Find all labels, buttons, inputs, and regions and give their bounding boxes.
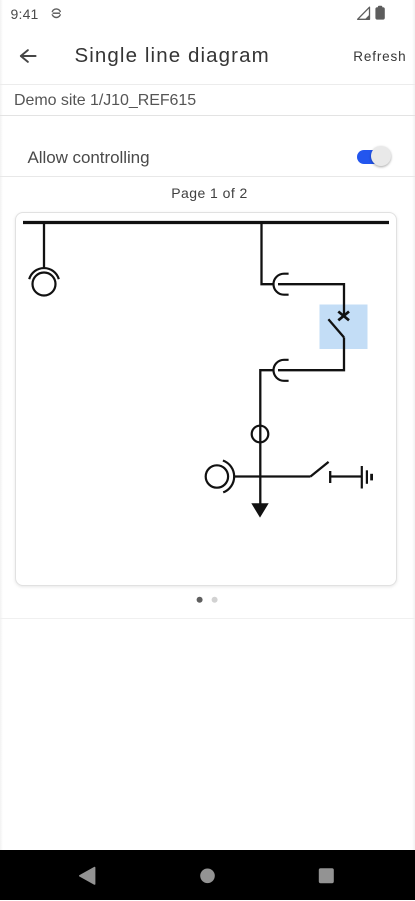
voltage transformer circle <box>33 273 56 296</box>
allow controlling row <box>28 149 150 166</box>
earthing switch blade <box>311 462 329 477</box>
current sensor circle <box>206 465 228 487</box>
toggle switch <box>357 150 389 164</box>
bottom navigation bar <box>0 850 415 901</box>
current transformer circle <box>252 426 269 443</box>
site row <box>14 93 196 109</box>
voltage transformer arc <box>29 268 59 279</box>
app bar <box>0 0 60 80</box>
diagram card <box>15 212 397 586</box>
divider below pager <box>0 618 415 619</box>
wire: breaker bottom to lower contact <box>278 337 344 370</box>
wire: junction horizontal <box>234 475 311 477</box>
wire: lower stub down to feeder <box>260 370 273 503</box>
wire: upper horizontal into breaker <box>278 284 344 316</box>
ground symbol <box>362 466 372 489</box>
busbar <box>23 221 389 224</box>
circuit breaker X contact <box>338 312 349 321</box>
selection highlight around breaker <box>320 305 368 350</box>
status bar <box>11 7 39 21</box>
page dots <box>197 597 203 603</box>
circuit breaker blade (open) <box>328 319 344 337</box>
wire: feeder drop from busbar to upper contact <box>262 223 274 285</box>
withdrawable contact (lower) <box>274 360 289 381</box>
single line diagram <box>0 0 415 640</box>
left edge vignette <box>0 0 3 850</box>
current sensor arc <box>223 461 234 493</box>
page label <box>2 186 415 200</box>
divider under app bar <box>0 84 415 85</box>
wire: to ground <box>330 475 361 477</box>
wire: left drop from busbar <box>43 223 45 269</box>
feeder arrow <box>251 503 268 517</box>
earthing switch contact bar <box>329 471 331 483</box>
withdrawable contact (upper) <box>274 274 289 295</box>
